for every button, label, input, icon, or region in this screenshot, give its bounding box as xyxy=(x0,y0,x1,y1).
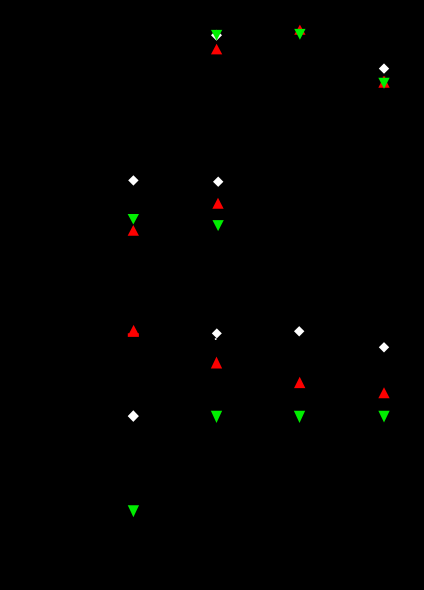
marker: red triangle-up (216.5,362.5) xyxy=(211,357,222,369)
marker: white diamond (216.5,35.3) under green triangle xyxy=(211,30,222,41)
marker: green triangle-down (216.5,416.9) xyxy=(211,411,222,423)
marker: white diamond (384,68.6) xyxy=(379,63,389,73)
marker: green triangle-down (384,83.3) xyxy=(378,78,389,89)
marker: green triangle-down (299.9,34.4) xyxy=(294,29,305,40)
marker: white diamond (299.2,331.3) xyxy=(294,326,304,336)
marker: green triangle-down (133.3,219.3) xyxy=(128,214,139,225)
marker: red triangle-up (216.6,49.1) xyxy=(211,44,222,55)
marker: green triangle-down (384,416.5) xyxy=(378,411,389,423)
marker: white diamond (218.2,181.7) xyxy=(213,177,223,187)
marker: red triangle-up (299.9,29.7) under green xyxy=(294,25,305,35)
marker: white diamond (216.6,334.0) xyxy=(212,328,222,338)
marker: double red triangle-up group (133.5,331) xyxy=(128,325,139,337)
marker: red triangle-up (218,203.2) xyxy=(212,198,223,209)
marker: small white tail below diamond (215.6,339) xyxy=(215,338,217,340)
marker: white diamond (133.3,416.1) xyxy=(128,410,139,422)
marker: green triangle-down (218.1,225.6) xyxy=(212,220,223,231)
marker: green triangle-down (133.4,511.2) xyxy=(128,505,139,517)
marker: white diamond (384,347.3) xyxy=(379,342,389,352)
marker: green triangle-down (299.5,416.9) xyxy=(294,411,305,423)
marker: red triangle-up (133.3,230.4) xyxy=(128,225,139,236)
marker: green triangle-down (216.6,35.2) xyxy=(211,30,222,41)
marker: red triangle-up (384,82.3) under green xyxy=(378,76,389,87)
marker: red triangle-up (299.7,382.4) xyxy=(294,377,305,388)
marker: white diamond (133.4,180.4) xyxy=(128,175,138,185)
marker: red apex nub above green (384,77) xyxy=(383,76,385,78)
marker: red triangle-up (384,392.8) xyxy=(378,387,389,398)
